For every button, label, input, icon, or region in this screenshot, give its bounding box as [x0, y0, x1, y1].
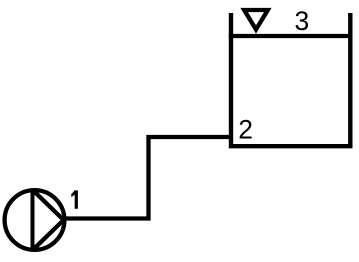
svg-text:2: 2	[238, 115, 253, 145]
water surface line inside tank	[229, 34, 353, 38]
pump P1: circle body	[5, 190, 65, 250]
pump P1: impeller base line (vertical diameter)	[31, 189, 35, 251]
tank T1: open reservoir walls and bottom	[231, 13, 350, 146]
pump P1: direction triangle	[33, 190, 64, 250]
svg-text:3: 3	[295, 6, 310, 36]
node label 1 (pump outlet)	[71, 190, 78, 208]
wire: pipe from pump outlet up to tank inlet	[64, 137, 231, 219]
level indicator symbol (inverted triangle)	[244, 10, 268, 30]
